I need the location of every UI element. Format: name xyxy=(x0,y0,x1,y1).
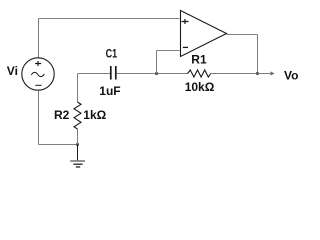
capacitor C1 plates xyxy=(111,66,116,80)
svg-text:Vi: Vi xyxy=(7,64,18,78)
wire output stub to arrow xyxy=(258,73,272,75)
svg-text:10kΩ: 10kΩ xyxy=(185,80,215,94)
op-amp - input sign xyxy=(183,46,188,48)
junction inverting-input node xyxy=(155,72,158,75)
wire R2 bottom lead xyxy=(77,129,79,145)
wire feedback horizontal to - input xyxy=(157,50,180,52)
wire source top vertical xyxy=(38,19,40,59)
resistor R2 zigzag xyxy=(74,102,81,129)
junction ground node xyxy=(76,143,79,146)
wire R1 right lead to output node xyxy=(211,73,258,75)
wire output vertical xyxy=(257,35,259,74)
wire R2 top lead xyxy=(77,74,79,103)
wire ground stub xyxy=(77,145,79,161)
wire bottom rail xyxy=(39,144,78,146)
resistor R1 zigzag xyxy=(188,70,211,77)
svg-text:R2: R2 xyxy=(54,108,70,122)
ground symbol xyxy=(70,161,85,167)
op-amp + input sign xyxy=(182,19,189,24)
wire source bottom vertical xyxy=(38,91,40,145)
svg-text:1uF: 1uF xyxy=(99,84,120,98)
sine symbol xyxy=(31,72,44,76)
wire top rail from source to op-amp + input xyxy=(39,18,180,20)
minus polarity mark xyxy=(35,84,41,86)
svg-text:1kΩ: 1kΩ xyxy=(83,108,106,122)
wire op-amp output horizontal xyxy=(227,34,258,36)
wire middle rail right (C1 to R1) xyxy=(117,73,188,75)
plus polarity mark xyxy=(35,61,41,66)
junction output node xyxy=(256,72,259,75)
svg-text:R1: R1 xyxy=(191,53,207,67)
source Vi xyxy=(22,58,54,90)
svg-text:C1: C1 xyxy=(106,47,118,61)
arrowhead output xyxy=(271,71,275,75)
wire middle rail left (R2 top to C1) xyxy=(78,73,111,75)
svg-text:Vo: Vo xyxy=(284,69,298,83)
wire feedback vertical xyxy=(156,51,158,74)
op-amp U1 triangle xyxy=(181,11,227,57)
